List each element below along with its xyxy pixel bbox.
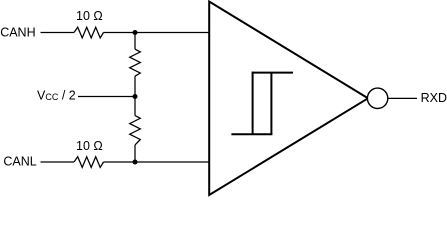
svg-text:CANH: CANH xyxy=(0,26,35,40)
hysteresis symbol left vertical xyxy=(252,72,254,135)
wire R3 bottom lead xyxy=(134,76,136,96)
hysteresis symbol right vertical xyxy=(270,73,272,135)
wire R4 top lead xyxy=(134,97,136,116)
resistor R4 xyxy=(130,116,141,145)
resistor R1 xyxy=(74,27,104,38)
wire CANL lead xyxy=(41,161,75,163)
hysteresis symbol top bar xyxy=(252,72,293,74)
wire R3 top lead xyxy=(134,33,136,50)
hysteresis symbol bottom bar xyxy=(231,133,272,135)
svg-text:VCC / 2: VCC / 2 xyxy=(37,88,76,102)
wire RXD xyxy=(388,97,417,99)
svg-text:10 Ω: 10 Ω xyxy=(76,9,103,23)
wire Vcc/2 to node xyxy=(78,96,135,98)
node junction CANL/R4 xyxy=(133,160,138,165)
svg-text:RXD: RXD xyxy=(421,91,447,105)
node junction CANH/R3 xyxy=(133,30,138,35)
wire CANL to comparator xyxy=(104,161,210,163)
wire CANH to comparator xyxy=(104,32,210,34)
resistor R2 xyxy=(74,157,104,168)
wire CANH lead xyxy=(41,32,75,34)
svg-text:CANL: CANL xyxy=(3,155,36,169)
svg-text:10 Ω: 10 Ω xyxy=(76,139,103,153)
comparator U1 triangle xyxy=(209,2,368,196)
node junction Vcc/2 xyxy=(133,94,138,99)
wire R4 bottom lead xyxy=(134,145,136,162)
inverter bubble xyxy=(367,88,387,108)
resistor R3 xyxy=(130,49,141,76)
